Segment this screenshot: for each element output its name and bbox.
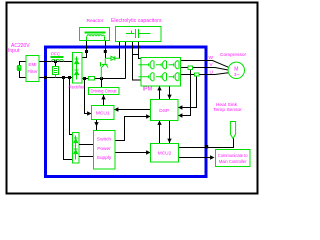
svg-text:Input: Input	[8, 48, 20, 54]
wire DSP to IPM drive	[169, 86, 171, 99]
arrow into MCU1 from DSP	[114, 107, 118, 111]
IPM igbt row2 col3	[169, 73, 180, 81]
wire DSP to MCU2 right channel	[169, 121, 171, 144]
Switch Power Supply block	[94, 131, 116, 170]
IPM igbt row2 col1	[139, 73, 155, 81]
arrow into DSP from below	[157, 121, 161, 125]
wire switch power supply to MCU2	[115, 152, 151, 154]
arrow into DSP right pin U	[178, 105, 182, 109]
svg-text:U: U	[210, 70, 214, 76]
IPM igbt row1 col2	[156, 61, 167, 69]
wire PFC switch tap vertical	[55, 62, 57, 67]
arrow into MCU2 from DSP	[167, 139, 171, 143]
wire PFC switch emitter to bottom line	[55, 75, 57, 78]
svg-text:Supply: Supply	[97, 155, 112, 161]
arrow into driving circuit	[101, 95, 105, 99]
junction transformer feed 2	[68, 76, 71, 79]
communication port block	[216, 150, 251, 167]
wire capacitor bank to IPM P bus	[133, 54, 142, 58]
shunt resistor on negative rail	[89, 77, 95, 81]
svg-text:Reactor: Reactor	[87, 18, 104, 24]
arrow into DSP from switch power supply	[146, 114, 150, 118]
PFC boost diode	[105, 56, 119, 60]
wire negative rail resistor to cap lead	[95, 78, 126, 80]
IPM igbt row1 col1	[139, 61, 155, 69]
IPM block	[141, 58, 181, 87]
arrow into IPM from DSP	[157, 86, 161, 90]
wire AC L from plug to EMI filter	[20, 62, 27, 78]
wire driving circuit to MCU1	[103, 95, 105, 106]
PFC boost inductor	[51, 57, 64, 62]
wire MCU2 to communication port	[179, 157, 213, 159]
MCU2 block	[151, 144, 179, 163]
wire U phase connector to motor	[199, 73, 228, 75]
transformer to SPS upper wire	[79, 144, 93, 146]
svg-text:Switch: Switch	[97, 137, 111, 143]
wire V phase connector to motor	[193, 68, 229, 71]
arrow into MCU2 from switch power supply	[146, 150, 150, 154]
arrow into MCU1 from AC sense	[87, 111, 91, 115]
wire capacitor lead 1	[119, 42, 121, 59]
svg-text:Main Controller: Main Controller	[219, 159, 247, 164]
connector on V phase	[188, 66, 193, 69]
wire switch power supply to DSP	[115, 117, 151, 141]
switch power supply transformer	[73, 133, 80, 164]
IPM igbt row2 col2	[156, 73, 167, 81]
junction sensor wire on board edge	[205, 145, 208, 148]
wire rectifier positive pin to reactor left lead	[82, 41, 87, 58]
junction AC sense on negative rail	[83, 77, 86, 80]
DSP block	[151, 100, 179, 121]
svg-text:PFC: PFC	[51, 52, 61, 57]
junction reactor left lead below board edge	[85, 50, 88, 53]
junction reactor right lead below board edge	[104, 50, 107, 53]
wire capacitor lead 3 to IPM N pin	[133, 42, 142, 81]
Driving Circuit block	[89, 88, 120, 95]
wire DSP to MCU2 left channel	[159, 121, 161, 144]
wire to switch power supply transformer lower feed	[64, 78, 73, 160]
wire EMI top output to rectifier	[39, 61, 72, 63]
svg-text:Driving Circuit: Driving Circuit	[90, 89, 117, 94]
power plug symbol	[17, 65, 22, 71]
svg-text:MCU2: MCU2	[158, 151, 172, 157]
wire EMI bottom output to rectifier	[39, 77, 72, 79]
heat sink temp sensor probe	[230, 122, 236, 139]
junction at board edge on AC line	[44, 76, 47, 79]
arrow into communication port	[210, 155, 214, 159]
PFC IGBT	[101, 58, 109, 78]
svg-text:EMI: EMI	[28, 62, 36, 67]
PFC switch transistor	[53, 67, 59, 78]
electrolytic capacitors block	[116, 27, 162, 42]
junction transformer feed 1	[62, 76, 65, 79]
wire AC sense to MCU1	[85, 79, 92, 114]
wire U phase current sense to DSP	[178, 77, 197, 108]
rectifier bridge block	[73, 53, 83, 84]
IPM igbt row1 col3	[169, 61, 180, 69]
svg-text:Power: Power	[97, 146, 111, 152]
svg-text:Communicate to: Communicate to	[218, 153, 249, 158]
svg-text:MCU1: MCU1	[96, 110, 110, 116]
svg-text:Rectifier: Rectifier	[69, 84, 86, 89]
wire negative rail from rectifier	[82, 78, 89, 80]
svg-text:Temp Sensor: Temp Sensor	[213, 107, 242, 113]
wire V phase current sense to DSP	[178, 70, 191, 116]
compressor motor symbol	[228, 62, 244, 78]
wire PFC gate drive to driving circuit	[101, 79, 103, 88]
wire capacitor lead 4 to bus	[138, 42, 140, 55]
svg-text:Compressor: Compressor	[220, 52, 247, 58]
MCU1 block	[92, 106, 115, 120]
wire V phase IPM to motor	[181, 67, 188, 69]
junction PFC tap on AC line	[54, 60, 57, 63]
svg-text:Electrolytic capacitors: Electrolytic capacitors	[111, 18, 162, 24]
transformer to SPS lower wire	[79, 156, 93, 158]
svg-text:DSP: DSP	[159, 108, 169, 114]
wire U phase IPM to motor	[181, 74, 195, 76]
junction PFC emitter on negative rail	[100, 77, 103, 80]
svg-text:IPM: IPM	[143, 86, 153, 92]
connector on U phase	[195, 73, 200, 76]
wire capacitor lead 2	[125, 42, 127, 79]
arrow into switch power supply from MCU1	[94, 122, 98, 126]
outer border frame	[7, 3, 258, 194]
svg-text:W: W	[209, 55, 214, 61]
reactor block	[80, 28, 110, 41]
controller board outline (blue)	[46, 47, 207, 177]
arrow into DSP right pin V	[178, 113, 182, 117]
wire reactor right lead	[104, 41, 106, 58]
EMI filter block	[26, 56, 39, 82]
wire heat sink sensor to MCU2	[179, 138, 234, 148]
wire MCU1 to switch power supply	[96, 120, 98, 131]
svg-text:3~: 3~	[234, 72, 240, 77]
wire to switch power supply transformer upper feed	[70, 78, 73, 135]
svg-text:Filter: Filter	[27, 69, 38, 74]
arrow into DSP from IPM	[167, 95, 171, 99]
wire IPM to DSP status	[159, 86, 161, 99]
wire MCU1 to DSP	[114, 109, 151, 111]
wire W phase IPM to motor	[181, 61, 229, 68]
